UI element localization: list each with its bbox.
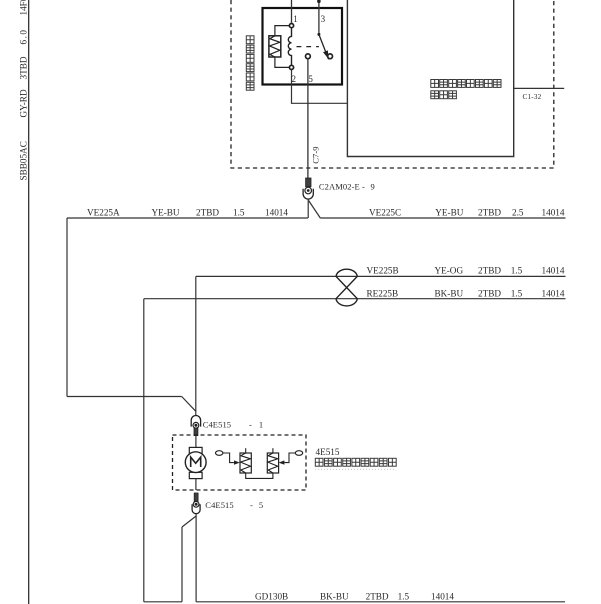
svg-text:SBB05AC: SBB05AC xyxy=(19,141,29,180)
svg-text:YE-BU: YE-BU xyxy=(435,207,463,217)
svg-text:2.5: 2.5 xyxy=(512,207,524,217)
inline connector C2AM02-E pin 9 xyxy=(303,178,313,199)
svg-text:14F0: 14F0 xyxy=(19,0,29,16)
svg-text:6.0: 6.0 xyxy=(19,29,29,45)
sender wiper arrow left xyxy=(279,460,285,464)
svg-text:1.5: 1.5 xyxy=(233,207,245,217)
twisted pair symbol xyxy=(336,269,357,306)
svg-text:1: 1 xyxy=(259,419,263,429)
connector C4E515 pin 5 xyxy=(192,493,200,514)
wire: pump ground straight down xyxy=(195,514,197,602)
svg-text:1.5: 1.5 xyxy=(398,592,410,602)
relay pin 2 terminal xyxy=(289,65,293,69)
sender wire left xyxy=(223,453,234,463)
wire: return jog xyxy=(182,516,196,527)
svg-text:5: 5 xyxy=(259,500,263,510)
wire: bottom U link xyxy=(144,601,182,603)
wire GD130B xyxy=(196,601,565,603)
wire VE225A xyxy=(67,217,308,219)
wire RE225B xyxy=(144,298,566,300)
ECM box xyxy=(347,0,513,157)
wire jog to connector xyxy=(182,397,196,412)
svg-text:VE225A: VE225A xyxy=(87,207,120,217)
wire: relay pin 3 from above xyxy=(318,0,320,34)
ECM label line 1 (发动机电子控制组) xyxy=(431,80,501,88)
svg-text:2TBD: 2TBD xyxy=(196,207,219,217)
wire VE225B xyxy=(196,275,566,277)
wire VE225B vertical drop xyxy=(195,276,197,415)
ECM label line 2 (件启动) xyxy=(431,91,457,99)
svg-text:2TBD: 2TBD xyxy=(478,207,501,217)
svg-text:1.5: 1.5 xyxy=(511,265,523,275)
svg-text:2TBD: 2TBD xyxy=(478,288,501,298)
sender resistor 2 top stub xyxy=(272,448,274,453)
svg-text:GD130B: GD130B xyxy=(255,592,288,602)
svg-text:VE225C: VE225C xyxy=(369,207,401,217)
wire: ECM pin stub C1-32 xyxy=(514,87,565,89)
relay pin 1 terminal xyxy=(289,24,293,28)
relay resistor xyxy=(269,26,290,68)
wire: connector stub down xyxy=(307,199,309,218)
sender right lug xyxy=(295,451,302,456)
svg-text:C7-9: C7-9 xyxy=(311,146,321,163)
module label 燃油泵和信号发送器 (CJK) xyxy=(315,458,396,466)
sender resistor 2 xyxy=(267,453,278,473)
svg-text:YE-BU: YE-BU xyxy=(152,207,180,217)
svg-text:RE225B: RE225B xyxy=(367,288,399,298)
svg-text:YE-OG: YE-OG xyxy=(435,265,464,275)
svg-text:14014: 14014 xyxy=(542,207,565,217)
faint dotted underline xyxy=(315,468,396,470)
svg-text:14014: 14014 xyxy=(265,207,288,217)
sender bottom link xyxy=(246,473,273,478)
svg-text:BK-BU: BK-BU xyxy=(435,288,464,298)
svg-text:3: 3 xyxy=(321,14,326,24)
wire: return vertical xyxy=(181,527,183,602)
svg-text:GY-RD: GY-RD xyxy=(19,89,29,117)
switch arm arrowhead xyxy=(323,50,328,58)
svg-text:14014: 14014 xyxy=(431,592,454,602)
wire: feed into relay pin 1 xyxy=(291,0,293,24)
wire into motor xyxy=(195,436,197,448)
svg-text:C2AM02-E: C2AM02-E xyxy=(319,182,360,192)
svg-text:-: - xyxy=(249,419,252,429)
dashed enclosure border xyxy=(231,0,554,168)
relay switch arm xyxy=(319,34,329,59)
wire VE225C xyxy=(320,217,565,219)
junction dot at top edge xyxy=(317,0,321,3)
wire VE225A vertical drop xyxy=(66,218,68,397)
svg-text:9: 9 xyxy=(371,182,375,192)
sender resistor 1 top stub xyxy=(245,448,247,453)
svg-text:2: 2 xyxy=(292,74,297,84)
wire: relay pin 5 down to connector xyxy=(307,59,309,178)
relay switch pivot dot xyxy=(317,33,320,36)
svg-text:4E515: 4E515 xyxy=(316,447,340,457)
relay coil xyxy=(288,28,291,66)
svg-text:2TBD: 2TBD xyxy=(366,592,389,602)
relay switch linkage (dashed) xyxy=(297,46,319,48)
svg-text:-: - xyxy=(362,182,365,192)
svg-text:C4E515: C4E515 xyxy=(203,419,231,429)
wire RE225B vertical drop xyxy=(143,299,145,602)
svg-text:2TBD: 2TBD xyxy=(478,265,501,275)
svg-text:14014: 14014 xyxy=(542,265,565,275)
harness sidebar line xyxy=(28,0,30,604)
svg-text:C1-32: C1-32 xyxy=(523,93,542,101)
svg-text:-: - xyxy=(250,500,253,510)
svg-text:1: 1 xyxy=(293,14,298,24)
svg-text:BK-BU: BK-BU xyxy=(320,592,349,602)
svg-text:3TBD: 3TBD xyxy=(19,56,29,79)
svg-text:14014: 14014 xyxy=(542,288,565,298)
fuel level sender: left lug xyxy=(216,451,223,456)
relay label 燃油泵继电器 (rotated CJK) xyxy=(246,36,254,90)
svg-text:C4E515: C4E515 xyxy=(205,500,233,510)
fuel pump motor xyxy=(185,447,206,478)
sender resistor 1 xyxy=(240,453,251,473)
wire VE225A bottom run xyxy=(67,396,182,398)
relay NO contact terminal xyxy=(328,54,333,59)
relay box: fuel pump relay xyxy=(263,8,343,85)
fuel pump module dashed box xyxy=(173,435,307,490)
relay pin 5 terminal xyxy=(306,54,311,59)
sender wiper arrow right xyxy=(234,460,240,464)
sender wire right xyxy=(284,453,295,463)
connector C4E515 pin 1 xyxy=(191,415,200,435)
svg-text:5: 5 xyxy=(308,74,313,84)
svg-text:1.5: 1.5 xyxy=(511,288,523,298)
wire: jog to VE225C xyxy=(309,201,321,219)
wire out of motor xyxy=(195,479,197,490)
wire: relay pin 2 to ECM xyxy=(292,69,348,103)
svg-text:VE225B: VE225B xyxy=(367,265,399,275)
